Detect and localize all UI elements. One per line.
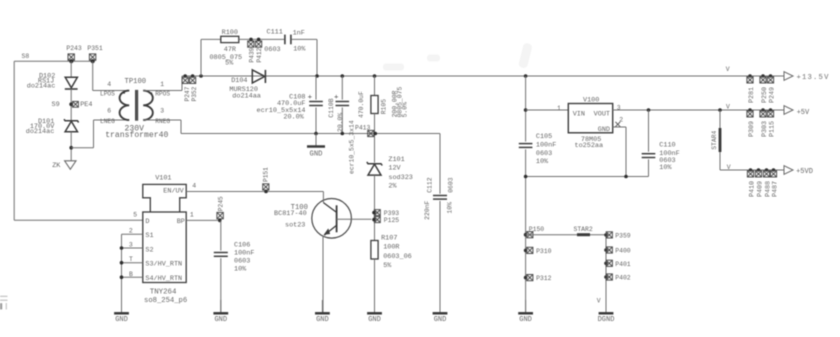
svg-text:5: 5: [133, 211, 137, 218]
svg-text:10%: 10%: [536, 158, 549, 166]
svg-text:S1: S1: [145, 232, 153, 240]
svg-text:sod323: sod323: [388, 174, 412, 182]
svg-text:V: V: [727, 164, 731, 171]
svg-text:+5VD: +5VD: [796, 168, 813, 176]
svg-text:C106: C106: [234, 241, 250, 249]
svg-text:GND: GND: [519, 316, 532, 324]
svg-text:BC817-40: BC817-40: [274, 210, 307, 218]
svg-text:T: T: [129, 256, 133, 263]
svg-text:P151: P151: [263, 167, 270, 182]
svg-text:GND: GND: [115, 316, 128, 324]
svg-text:10%: 10%: [659, 164, 672, 172]
svg-text:R100: R100: [222, 29, 238, 37]
svg-text:1nF: 1nF: [293, 29, 305, 37]
svg-text:do214ac: do214ac: [26, 128, 55, 136]
svg-text:C111: C111: [267, 29, 283, 37]
svg-text:V: V: [726, 66, 730, 73]
svg-text:470.0uF: 470.0uF: [358, 91, 365, 118]
svg-text:0603: 0603: [234, 257, 250, 265]
svg-text:+13.5V: +13.5V: [797, 74, 830, 82]
svg-text:5%: 5%: [383, 262, 392, 270]
svg-text:P352: P352: [191, 86, 198, 101]
svg-text:47R: 47R: [224, 46, 236, 54]
svg-text:S2: S2: [145, 246, 153, 254]
svg-text:GND: GND: [434, 316, 447, 324]
svg-text:V: V: [597, 298, 601, 305]
svg-text:C112: C112: [426, 177, 433, 193]
svg-text:P115: P115: [769, 121, 777, 137]
svg-text:EN/UV: EN/UV: [163, 188, 184, 196]
svg-text:P402: P402: [615, 275, 631, 282]
svg-text:P439: P439: [248, 47, 255, 62]
svg-text:DGND: DGND: [598, 316, 615, 324]
svg-text:4: 4: [107, 81, 111, 88]
svg-text:D: D: [145, 218, 149, 226]
svg-text:to252aa: to252aa: [575, 142, 604, 150]
svg-text:+5V: +5V: [797, 109, 810, 117]
svg-text:VIN: VIN: [573, 111, 585, 119]
svg-text:6: 6: [107, 107, 111, 114]
svg-text:do214aa: do214aa: [232, 92, 261, 100]
svg-text:20.0%: 20.0%: [283, 113, 304, 121]
svg-text:P281: P281: [748, 87, 756, 103]
svg-text:3: 3: [160, 107, 164, 114]
svg-text:P245: P245: [217, 196, 224, 211]
svg-text:20.0%: 20.0%: [337, 113, 344, 132]
svg-text:0603: 0603: [447, 177, 454, 193]
svg-text:1: 1: [160, 81, 164, 88]
svg-text:0603: 0603: [264, 46, 280, 54]
svg-text:V: V: [726, 103, 730, 110]
svg-text:LNEG: LNEG: [100, 118, 115, 125]
svg-text:P351: P351: [87, 45, 103, 52]
svg-text:RNEG: RNEG: [155, 118, 170, 125]
svg-text:5.0%: 5.0%: [402, 102, 409, 118]
svg-text:P312: P312: [536, 275, 552, 282]
svg-text:P125: P125: [384, 217, 400, 224]
svg-text:P393: P393: [384, 210, 400, 217]
svg-text:GND: GND: [316, 316, 329, 324]
svg-text:R105: R105: [381, 99, 388, 115]
svg-text:220nF: 220nF: [424, 200, 431, 219]
svg-text:GND: GND: [310, 151, 323, 159]
svg-text:TNY264: TNY264: [150, 289, 177, 297]
svg-text:TP100: TP100: [125, 78, 147, 86]
svg-text:RPOS: RPOS: [155, 91, 170, 98]
svg-text:P310: P310: [536, 248, 552, 255]
svg-text:P400: P400: [615, 248, 631, 255]
svg-text:C110B: C110B: [328, 98, 335, 117]
svg-text:P359: P359: [615, 233, 631, 240]
svg-text:P243: P243: [66, 45, 82, 52]
svg-text:GND: GND: [214, 316, 227, 324]
svg-text:Z101: Z101: [388, 156, 404, 164]
svg-text:R107: R107: [381, 235, 397, 243]
svg-text:P410: P410: [749, 181, 757, 197]
svg-text:P150: P150: [529, 226, 545, 233]
svg-text:VOUT: VOUT: [594, 111, 610, 119]
svg-text:S3/HV_RTN: S3/HV_RTN: [145, 261, 182, 269]
svg-text:4: 4: [192, 182, 196, 189]
svg-text:100nF: 100nF: [536, 141, 556, 149]
svg-text:so8_254_p6: so8_254_p6: [144, 297, 187, 305]
svg-text:do214ac: do214ac: [27, 82, 56, 90]
svg-text:P401: P401: [615, 261, 631, 268]
svg-text:ZK: ZK: [52, 162, 61, 170]
svg-text:STAR4: STAR4: [711, 130, 718, 149]
svg-text:P409: P409: [757, 181, 765, 197]
svg-text:transformer40: transformer40: [105, 131, 168, 140]
svg-text:1: 1: [190, 211, 194, 218]
svg-text:sot23: sot23: [285, 221, 305, 229]
svg-text:V101: V101: [155, 175, 171, 183]
svg-text:2%: 2%: [388, 183, 397, 191]
svg-text:0603: 0603: [536, 150, 552, 158]
svg-text:C110: C110: [659, 141, 675, 149]
svg-text:100R: 100R: [383, 244, 399, 252]
svg-text:GND: GND: [368, 316, 381, 324]
svg-text:5%: 5%: [225, 60, 234, 68]
svg-text:PE4: PE4: [80, 101, 92, 109]
svg-text:1: 1: [557, 105, 561, 112]
svg-text:GND: GND: [598, 126, 610, 134]
svg-text:100nF: 100nF: [234, 249, 254, 257]
svg-text:P247: P247: [184, 86, 191, 101]
svg-text:10%: 10%: [447, 202, 454, 214]
svg-text:STAR2: STAR2: [574, 226, 593, 233]
svg-text:P309: P309: [748, 121, 756, 137]
svg-text:P412: P412: [256, 47, 263, 62]
svg-text:S9: S9: [52, 101, 60, 109]
svg-text:V100: V100: [583, 96, 599, 104]
svg-text:P249: P249: [769, 87, 777, 103]
svg-text:LPOS: LPOS: [100, 91, 115, 98]
svg-text:10%: 10%: [293, 46, 306, 54]
svg-text:+: +: [308, 94, 313, 102]
svg-text:2: 2: [129, 227, 133, 234]
svg-text:0603_06: 0603_06: [383, 253, 412, 261]
svg-text:C105: C105: [536, 133, 552, 141]
svg-text:BP: BP: [177, 218, 185, 226]
svg-text:12V: 12V: [388, 165, 401, 173]
svg-text:S8: S8: [22, 53, 30, 60]
svg-text:P487: P487: [772, 181, 780, 197]
svg-text:D104: D104: [231, 77, 247, 85]
svg-text:S4/HV_RTN: S4/HV_RTN: [145, 275, 182, 283]
svg-text:10%: 10%: [234, 265, 247, 273]
svg-text:3: 3: [617, 105, 621, 112]
